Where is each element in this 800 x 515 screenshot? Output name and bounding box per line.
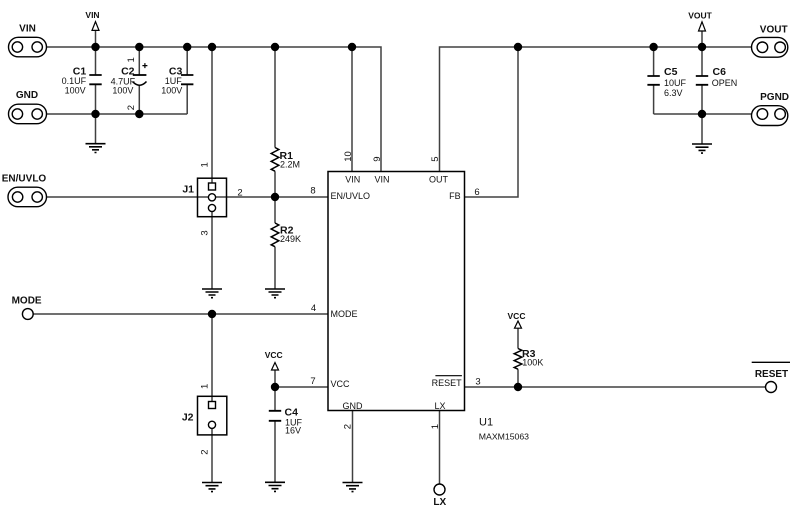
svg-text:VIN: VIN bbox=[345, 175, 360, 185]
wire C6 leads bbox=[701, 47, 703, 144]
wire C3 leads bbox=[186, 47, 188, 114]
wire FB net bbox=[465, 47, 519, 197]
svg-text:RESET: RESET bbox=[755, 369, 788, 380]
node MODE terminal bbox=[12, 296, 42, 320]
ground under R2 bbox=[265, 289, 285, 298]
junction VIN rail at pin10 bbox=[348, 43, 356, 51]
junction OUT rail at C5 bbox=[649, 43, 657, 51]
junction VIN rail at C3 bbox=[183, 43, 191, 51]
svg-text:2: 2 bbox=[200, 450, 211, 455]
power VIN arrow bbox=[85, 10, 99, 30]
svg-text:100V: 100V bbox=[112, 86, 133, 96]
node RESET terminal (active low) bbox=[752, 362, 790, 392]
svg-text:3: 3 bbox=[475, 377, 480, 388]
wire MODE net bbox=[33, 313, 328, 315]
capacitor C4 bbox=[269, 407, 303, 436]
wire OUT rail bbox=[440, 47, 752, 172]
capacitor C6 bbox=[696, 66, 737, 88]
svg-text:U1: U1 bbox=[479, 417, 493, 429]
svg-text:VOUT: VOUT bbox=[760, 24, 788, 35]
junction PGND at C6 bbox=[698, 110, 706, 118]
svg-text:LX: LX bbox=[433, 497, 446, 508]
capacitor C3 bbox=[161, 66, 193, 96]
capacitor C1 bbox=[62, 66, 102, 96]
power VCC arrow at C4 bbox=[265, 350, 283, 370]
svg-text:VCC: VCC bbox=[331, 379, 351, 389]
ground under C1 bbox=[86, 144, 106, 153]
svg-text:GND: GND bbox=[16, 90, 38, 101]
svg-text:OUT: OUT bbox=[429, 175, 449, 185]
ground under U1 GND pin bbox=[343, 483, 363, 492]
svg-text:GND: GND bbox=[343, 401, 364, 411]
wire C5 leads bbox=[654, 47, 752, 114]
wire GND pin2 drop bbox=[352, 411, 354, 483]
svg-text:100V: 100V bbox=[161, 86, 182, 96]
wire VOUT stem bbox=[701, 31, 703, 47]
svg-text:VOUT: VOUT bbox=[688, 11, 712, 21]
wire GND rail bbox=[47, 113, 188, 115]
connector VIN bbox=[9, 24, 47, 57]
svg-text:EN/UVLO: EN/UVLO bbox=[331, 191, 371, 201]
svg-text:100K: 100K bbox=[522, 358, 543, 368]
connector PGND bbox=[752, 92, 790, 126]
svg-text:16V: 16V bbox=[285, 426, 301, 436]
svg-text:VCC: VCC bbox=[265, 350, 283, 360]
svg-text:5: 5 bbox=[430, 157, 441, 162]
connector VOUT bbox=[752, 24, 788, 57]
svg-text:1: 1 bbox=[430, 424, 441, 429]
svg-text:2: 2 bbox=[237, 188, 242, 199]
svg-text:10: 10 bbox=[343, 151, 354, 162]
junction GND rail at C2 bbox=[135, 110, 143, 118]
svg-text:2.2M: 2.2M bbox=[280, 160, 300, 170]
svg-text:C5: C5 bbox=[664, 66, 678, 78]
ground under C4 bbox=[265, 482, 285, 491]
wire R2 leads bbox=[274, 197, 276, 289]
svg-text:249K: 249K bbox=[280, 234, 301, 244]
wire C4 leads bbox=[274, 387, 276, 482]
svg-text:J2: J2 bbox=[182, 412, 194, 424]
wire LX pin1 drop bbox=[439, 411, 441, 485]
junction VCC at C4 bbox=[271, 383, 279, 391]
svg-text:2: 2 bbox=[126, 105, 137, 110]
svg-text:100V: 100V bbox=[65, 86, 86, 96]
capacitor C5 bbox=[647, 66, 686, 98]
svg-text:8: 8 bbox=[310, 186, 315, 197]
svg-text:1: 1 bbox=[200, 162, 211, 167]
capacitor C2 (polarized) bbox=[111, 57, 148, 110]
svg-text:1: 1 bbox=[200, 384, 211, 389]
ground under C6 (PGND) bbox=[692, 144, 712, 153]
svg-text:EN/UVLO: EN/UVLO bbox=[2, 174, 47, 185]
svg-text:6.3V: 6.3V bbox=[664, 88, 683, 98]
wire VIN stem bbox=[95, 31, 97, 48]
op-amp U1 MAXM15063 IC body bbox=[328, 172, 529, 442]
wire RESET net bbox=[465, 386, 766, 388]
power VCC arrow at R3 bbox=[508, 311, 526, 328]
junction RESET at R3 bbox=[514, 383, 522, 391]
jumper J2 bbox=[182, 384, 227, 455]
svg-text:10UF: 10UF bbox=[664, 78, 687, 88]
svg-text:RESET: RESET bbox=[432, 378, 463, 388]
wire EN/UVLO net bbox=[47, 196, 329, 198]
wire C1 leads bbox=[95, 47, 97, 144]
wire VIN pin10 stub bbox=[351, 47, 353, 172]
jumper J1 bbox=[182, 162, 242, 235]
power VOUT arrow bbox=[688, 11, 712, 31]
connector GND bbox=[9, 90, 47, 124]
junction VIN rail at J1 bbox=[208, 43, 216, 51]
junction GND rail at C1 bbox=[91, 110, 99, 118]
svg-text:2: 2 bbox=[342, 424, 353, 429]
svg-text:3: 3 bbox=[200, 230, 211, 235]
svg-text:MODE: MODE bbox=[331, 309, 358, 319]
wire C2 leads bbox=[138, 47, 140, 114]
junction EN/UVLO at R1/R2 bbox=[271, 193, 279, 201]
svg-text:PGND: PGND bbox=[760, 92, 789, 103]
svg-text:1UF: 1UF bbox=[165, 76, 183, 86]
junction OUT rail at FB bbox=[514, 43, 522, 51]
resistor R3 bbox=[514, 348, 543, 369]
junction VIN rail at R1 bbox=[271, 43, 279, 51]
wire J1 pin3 to ground bbox=[211, 212, 213, 289]
wire R3 leads bbox=[517, 328, 519, 387]
svg-text:J1: J1 bbox=[182, 184, 194, 196]
wire VIN rail top bbox=[47, 47, 382, 172]
svg-text:6: 6 bbox=[474, 187, 479, 198]
wire VCC stem to pin7 bbox=[275, 370, 328, 387]
svg-text:MODE: MODE bbox=[12, 296, 42, 307]
wire R1 leads bbox=[274, 47, 276, 197]
svg-text:MAXM15063: MAXM15063 bbox=[479, 432, 529, 442]
junction MODE at J2 bbox=[208, 310, 216, 318]
junction VIN rail at C1 bbox=[91, 43, 99, 51]
svg-text:VIN: VIN bbox=[85, 10, 99, 20]
svg-text:C6: C6 bbox=[713, 66, 727, 78]
wire J2 pin1 drop bbox=[211, 314, 213, 402]
svg-text:OPEN: OPEN bbox=[712, 78, 738, 88]
svg-text:VIN: VIN bbox=[374, 175, 389, 185]
ground under J1 bbox=[202, 289, 222, 298]
svg-text:C2: C2 bbox=[121, 65, 135, 77]
ground under J2 bbox=[202, 483, 222, 492]
svg-text:1: 1 bbox=[126, 57, 137, 62]
svg-text:FB: FB bbox=[449, 191, 461, 201]
connector EN/UVLO bbox=[2, 174, 47, 207]
svg-text:7: 7 bbox=[310, 376, 315, 387]
junction VIN rail at C2 bbox=[135, 43, 143, 51]
wire J1 pin1 drop bbox=[211, 47, 213, 183]
svg-text:VCC: VCC bbox=[508, 311, 526, 321]
svg-text:LX: LX bbox=[434, 401, 445, 411]
svg-text:VIN: VIN bbox=[19, 24, 36, 35]
svg-text:0.1UF: 0.1UF bbox=[62, 76, 87, 86]
resistor R2 bbox=[271, 223, 301, 247]
resistor R1 bbox=[271, 148, 300, 172]
wire J2 pin2 to ground bbox=[211, 428, 213, 482]
node LX terminal bbox=[433, 484, 446, 508]
junction OUT rail at C6 bbox=[698, 43, 706, 51]
svg-text:4: 4 bbox=[311, 303, 316, 314]
svg-text:9: 9 bbox=[372, 157, 383, 162]
